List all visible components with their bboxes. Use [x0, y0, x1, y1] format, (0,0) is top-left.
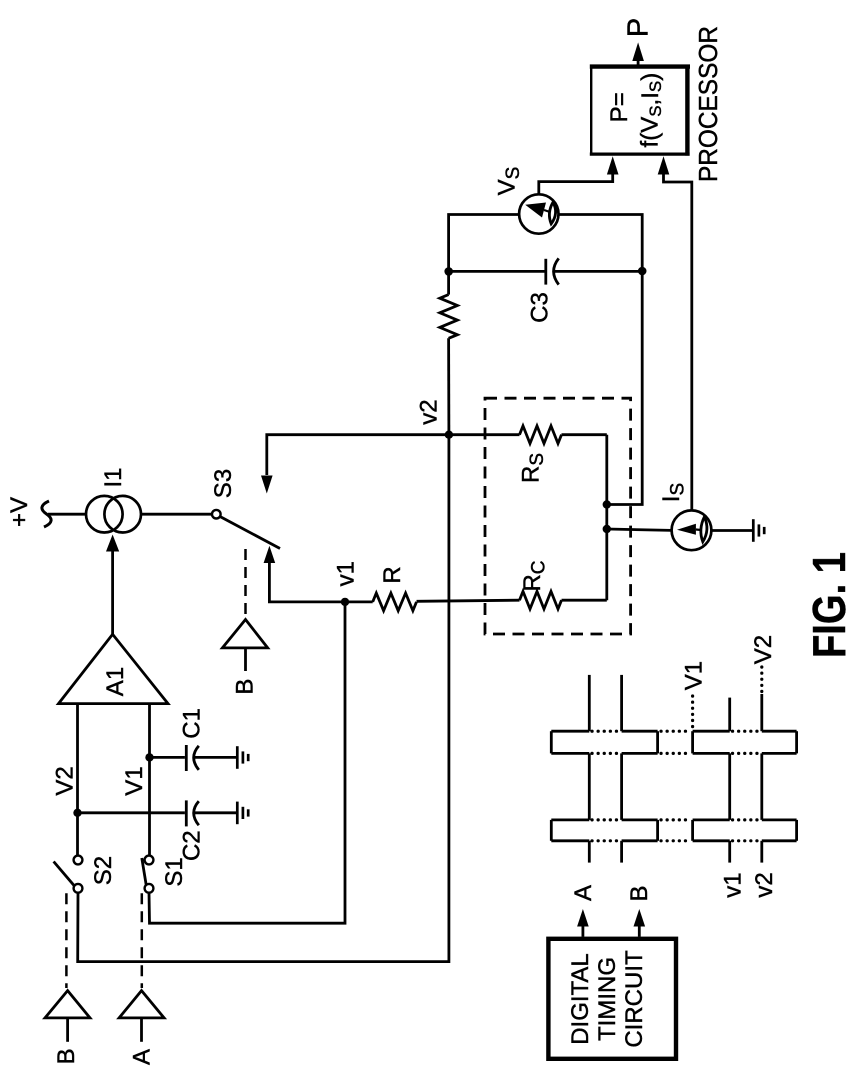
ground (IS) — [711, 519, 764, 542]
arrowhead (IS input) — [658, 156, 670, 174]
node (C3 left) — [444, 267, 453, 276]
wire junction to IS — [607, 529, 672, 530]
ground (C2) — [237, 802, 248, 825]
node v1 — [341, 598, 349, 606]
svg-text:v2: v2 — [751, 872, 778, 897]
column v2 — [760, 694, 763, 863]
arrowhead (VS input) — [607, 156, 619, 174]
svg-text:DIGITAL: DIGITAL — [567, 953, 594, 1045]
sensor array row1 right bar — [693, 731, 797, 753]
arrowhead (v1 contact) — [264, 546, 276, 563]
wire R to RC — [417, 600, 520, 601]
column B — [620, 675, 623, 863]
dashed control line S3 — [244, 549, 247, 616]
svg-text:B: B — [232, 679, 259, 695]
svg-text:C3: C3 — [527, 292, 554, 323]
sensor array row2 right bar — [693, 820, 797, 841]
wire A1 input V2 — [76, 704, 79, 856]
arrow B from timing circuit — [634, 909, 646, 937]
svg-text:RS: RS — [518, 453, 548, 483]
dotted column V1 — [691, 696, 694, 729]
current source I1 — [86, 496, 141, 533]
svg-text:TIMING: TIMING — [594, 957, 621, 1041]
svg-text:IS: IS — [658, 483, 688, 502]
node v2 — [445, 431, 453, 439]
node V2 — [73, 809, 81, 817]
wire V2 to C2 — [78, 811, 185, 814]
node junction upper — [603, 500, 611, 508]
control arrow A (S1) — [119, 991, 164, 1042]
svg-text:v1: v1 — [720, 872, 747, 897]
svg-text:S3: S3 — [210, 469, 237, 498]
digital timing circuit box — [548, 939, 676, 1059]
+V terminal squiggle — [42, 501, 51, 527]
wire v2 to S3 contact — [267, 435, 449, 475]
arrow A from timing circuit — [577, 909, 589, 937]
wire S1 to v1 node — [149, 602, 345, 923]
svg-text:V1: V1 — [121, 766, 148, 795]
resistor R — [345, 593, 417, 611]
svg-text:PROCESSOR: PROCESSOR — [693, 26, 723, 182]
svg-text:I1: I1 — [100, 467, 127, 487]
wire IS to processor — [664, 174, 692, 511]
ground (C1) — [237, 746, 248, 769]
node junction lower — [603, 525, 611, 533]
column A — [588, 675, 591, 863]
ammeter IS — [672, 510, 712, 550]
svg-text:P=: P= — [606, 92, 633, 122]
svg-text:A: A — [129, 1049, 156, 1065]
control arrow B (S3) — [222, 620, 267, 672]
svg-text:v1: v1 — [332, 561, 359, 586]
arrow P output — [632, 42, 644, 65]
op-amp A1 — [59, 634, 169, 703]
resistor RS — [449, 426, 607, 444]
dashed control line S2 — [65, 893, 68, 988]
dashed control line S1 — [141, 893, 144, 988]
wire V1 to C1 — [150, 756, 185, 759]
svg-text:A: A — [570, 885, 597, 901]
wire v1 to S3 contact — [269, 563, 345, 602]
node (C3 right) — [638, 267, 647, 276]
svg-text:v2: v2 — [416, 399, 443, 424]
svg-text:C1: C1 — [179, 708, 206, 739]
resistor RC — [520, 591, 607, 609]
wire I1 to S3 — [141, 513, 212, 516]
svg-text:+V: +V — [6, 497, 33, 527]
svg-text:RC: RC — [519, 560, 549, 591]
svg-text:R: R — [379, 566, 406, 583]
svg-text:V2: V2 — [51, 766, 78, 795]
dotted bar continuations — [592, 731, 760, 841]
capacitor C1 — [186, 745, 236, 771]
wire VS to processor — [539, 174, 613, 194]
switch S3 — [212, 510, 280, 549]
wire +V to I1 — [48, 513, 86, 516]
arrowhead (v2 contact) — [261, 476, 273, 494]
switch S2 — [54, 856, 83, 893]
processor box — [590, 65, 690, 156]
capacitor C2 — [186, 800, 236, 826]
svg-text:P: P — [622, 18, 654, 37]
voltmeter VS — [519, 194, 558, 233]
svg-text:C2: C2 — [179, 830, 206, 861]
capacitor C3 — [449, 258, 643, 284]
arrow A1 output to I1 — [106, 535, 119, 635]
label DIGITAL TIMING CIRCUIT — [567, 950, 648, 1048]
sensor array row2 left bar — [551, 820, 657, 841]
svg-text:VS: VS — [494, 167, 524, 196]
resistor (VS branch, unlabeled) — [440, 295, 458, 339]
svg-text:S2: S2 — [90, 856, 117, 885]
svg-text:CIRCUIT: CIRCUIT — [621, 950, 648, 1048]
control arrow B (S2) — [45, 991, 90, 1042]
switch S1 — [142, 856, 154, 893]
node V1 — [145, 753, 153, 761]
svg-text:S1: S1 — [161, 857, 188, 886]
dotted column V2 — [760, 667, 763, 692]
column v1 — [728, 698, 731, 863]
svg-text:FIG. 1: FIG. 1 — [803, 552, 850, 658]
wire A1 input V1 — [148, 704, 151, 856]
sensor dashed box — [485, 398, 631, 634]
sensor array row1 left bar — [551, 731, 657, 753]
svg-text:V2: V2 — [750, 635, 777, 664]
wire VS right to junction — [559, 215, 643, 505]
svg-text:V1: V1 — [681, 661, 708, 690]
svg-text:A1: A1 — [102, 667, 129, 696]
wire S2 to v2 node — [78, 435, 449, 962]
wire resistor to VS — [449, 215, 519, 295]
svg-text:B: B — [53, 1048, 80, 1064]
wire RS to RC junction — [605, 435, 608, 601]
wire v2 up to resistor — [447, 338, 450, 434]
svg-text:B: B — [626, 885, 653, 901]
